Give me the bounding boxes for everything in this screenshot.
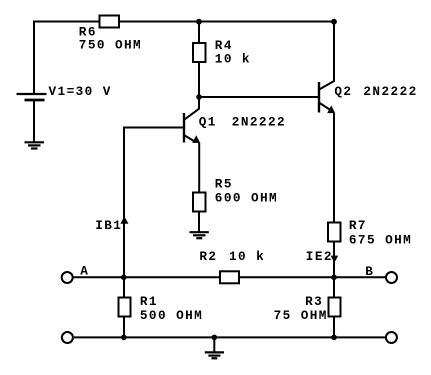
wire R1 branch (123, 277, 125, 337)
terminal bottom-left circle (62, 332, 73, 343)
resistor R4 box (193, 43, 206, 62)
ground (battery) (25, 142, 45, 148)
svg-text:R5: R5 (215, 176, 233, 191)
svg-text:IE2: IE2 (306, 249, 333, 264)
svg-text:B: B (365, 264, 374, 279)
wire bottom rail (74, 336, 385, 338)
resistor R7 box (328, 223, 341, 242)
svg-text:IB1: IB1 (95, 218, 122, 233)
battery V1 long plate (17, 93, 47, 95)
arrow IB1 (up) (120, 216, 128, 224)
svg-text:10 k: 10 k (229, 249, 265, 264)
terminal A circle (62, 272, 73, 283)
transistor Q2 base bar (318, 82, 320, 113)
wire center ground stub (213, 337, 215, 352)
svg-text:R7: R7 (349, 218, 367, 233)
battery V1 short plate (25, 99, 45, 102)
resistor R5 box (193, 193, 206, 212)
wire A-B rail (74, 276, 386, 278)
terminal bottom-right circle (386, 332, 397, 343)
arrow IE2 (down) (331, 256, 339, 263)
terminal B circle (386, 272, 397, 283)
svg-text:500 OHM: 500 OHM (140, 308, 203, 323)
junction node R4/Q1 collector/Q2 base (196, 94, 202, 100)
wire R5 to ground (198, 212, 200, 232)
junction node B rail / R3 / R7 (331, 275, 337, 281)
svg-text:R2: R2 (199, 249, 217, 264)
transistor Q1 base bar (183, 113, 185, 143)
wire Q2 base from node (199, 96, 319, 98)
svg-text:600 OHM: 600 OHM (215, 191, 278, 206)
junction node bottom rail / R3 (331, 335, 337, 341)
wire R3 branch (333, 277, 335, 337)
arrowhead Q1 emitter (192, 135, 200, 143)
resistor R3 box (329, 298, 341, 317)
junction node top of R4 (196, 19, 202, 25)
wire R4 branch vertical (198, 22, 200, 98)
transistor Q2 collector lead (320, 22, 334, 90)
svg-text:V1=30 V: V1=30 V (49, 84, 112, 99)
svg-text:Q2: Q2 (334, 84, 352, 99)
transistor Q2 emitter lead (320, 103, 331, 110)
wire Q2 emitter to R7 (333, 113, 335, 223)
svg-text:A: A (80, 264, 89, 279)
arrowhead Q2 emitter (327, 105, 335, 113)
svg-text:2N2222: 2N2222 (363, 84, 417, 99)
svg-text:75 OHM: 75 OHM (274, 308, 328, 323)
wire top rail from battery to Q2 collector (34, 22, 334, 94)
svg-text:675 OHM: 675 OHM (349, 232, 412, 247)
wire R7 to node B rail (333, 242, 335, 278)
svg-text:Q1: Q1 (199, 115, 217, 130)
wire battery negative to ground (33, 100, 35, 142)
transistor Q1 emitter lead (185, 135, 196, 142)
junction node top of Q2 collector (331, 19, 337, 25)
svg-text:2N2222: 2N2222 (232, 115, 286, 130)
junction node A rail / R1 (121, 275, 127, 281)
transistor Q1 collector lead (185, 97, 199, 119)
svg-text:750 OHM: 750 OHM (79, 37, 142, 52)
resistor R1 box (119, 298, 131, 317)
resistor R2 box (220, 271, 239, 283)
wire Q1 base lead (124, 128, 184, 278)
junction node bottom rail / ground (212, 335, 218, 341)
wire Q1 emitter to R5 (198, 143, 200, 193)
resistor R6 box (100, 16, 120, 28)
ground (R5) (190, 232, 209, 238)
junction node bottom rail / R1 (121, 335, 127, 341)
ground (bottom center) (205, 352, 224, 358)
svg-text:10 k: 10 k (215, 52, 251, 67)
svg-text:R3: R3 (305, 294, 323, 309)
